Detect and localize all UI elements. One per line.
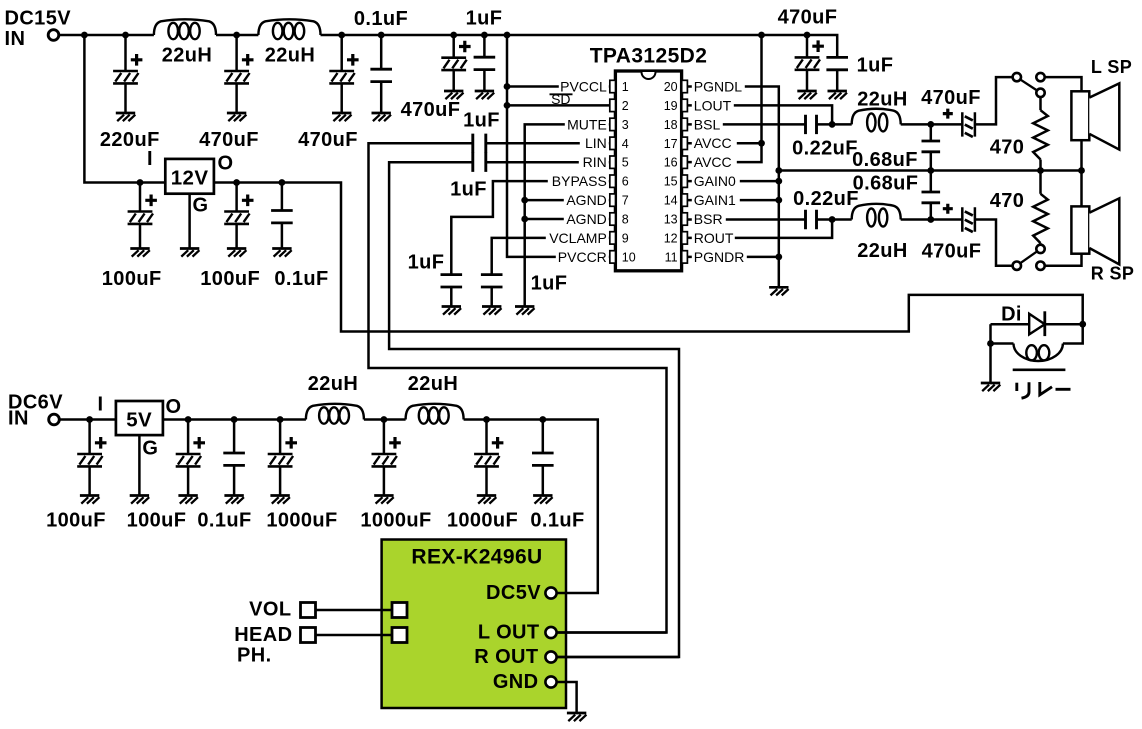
svg-text:1uF: 1uF [463, 110, 500, 132]
svg-text:470: 470 [990, 137, 1025, 159]
svg-text:1000uF: 1000uF [447, 510, 518, 532]
svg-text:470: 470 [990, 190, 1025, 212]
svg-text:BSL: BSL [694, 116, 721, 132]
svg-text:470uF: 470uF [401, 99, 461, 121]
svg-text:5V: 5V [126, 409, 152, 432]
svg-text:10: 10 [622, 250, 636, 264]
svg-text:1uF: 1uF [531, 273, 568, 295]
svg-text:DC15V: DC15V [5, 8, 72, 30]
svg-text:ROUT: ROUT [694, 230, 734, 246]
svg-text:17: 17 [664, 137, 678, 151]
svg-text:IN: IN [5, 28, 26, 50]
svg-text:0.68uF: 0.68uF [852, 149, 918, 171]
svg-text:0.1uF: 0.1uF [354, 8, 408, 30]
svg-text:LOUT: LOUT [694, 97, 732, 113]
svg-text:470uF: 470uF [922, 241, 982, 263]
svg-text:I: I [147, 148, 153, 170]
svg-text:2: 2 [622, 99, 629, 113]
svg-text:I: I [98, 394, 104, 416]
svg-text:22uH: 22uH [408, 373, 459, 395]
svg-text:VOL: VOL [249, 599, 291, 621]
svg-text:AVCC: AVCC [694, 135, 732, 151]
svg-text:GAIN1: GAIN1 [694, 192, 736, 208]
svg-text:0.1uF: 0.1uF [530, 510, 584, 532]
svg-text:O: O [218, 153, 234, 175]
svg-text:R SP: R SP [1091, 264, 1135, 284]
svg-text:11: 11 [665, 250, 678, 264]
svg-text:G: G [193, 195, 209, 217]
svg-text:PGNDR: PGNDR [694, 249, 745, 265]
svg-text:1uF: 1uF [450, 179, 487, 201]
svg-text:100uF: 100uF [102, 268, 162, 290]
svg-text:18: 18 [664, 118, 678, 132]
svg-text:470uF: 470uF [921, 87, 981, 109]
svg-text:O: O [166, 396, 182, 418]
svg-text:100uF: 100uF [46, 510, 106, 532]
svg-text:4: 4 [622, 137, 629, 151]
svg-text:LIN: LIN [585, 135, 607, 151]
svg-text:BYPASS: BYPASS [552, 173, 607, 189]
svg-text:470uF: 470uF [298, 129, 358, 151]
svg-text:0.22uF: 0.22uF [793, 188, 859, 210]
svg-text:0.1uF: 0.1uF [274, 268, 328, 290]
svg-text:3: 3 [622, 118, 629, 132]
svg-text:22uH: 22uH [265, 45, 316, 67]
svg-text:R OUT: R OUT [474, 646, 538, 668]
svg-text:0.68uF: 0.68uF [853, 173, 919, 195]
svg-text:L SP: L SP [1091, 57, 1132, 77]
svg-text:PGNDL: PGNDL [694, 78, 742, 94]
svg-text:BSR: BSR [694, 211, 723, 227]
svg-text:1uF: 1uF [408, 252, 445, 274]
svg-text:22uH: 22uH [308, 373, 359, 395]
svg-text:1: 1 [622, 80, 629, 94]
svg-text:13: 13 [664, 213, 678, 227]
svg-text:Di: Di [1001, 304, 1022, 326]
svg-text:20: 20 [664, 80, 678, 94]
svg-text:12: 12 [664, 231, 678, 245]
svg-text:GND: GND [493, 671, 539, 693]
svg-text:12V: 12V [171, 167, 209, 190]
svg-text:GAIN0: GAIN0 [694, 173, 736, 189]
svg-text:AGND: AGND [566, 211, 606, 227]
svg-text:470uF: 470uF [199, 129, 259, 151]
svg-text:22uH: 22uH [857, 240, 908, 262]
svg-text:7: 7 [622, 194, 629, 208]
svg-text:470uF: 470uF [778, 7, 838, 29]
svg-text:IN: IN [8, 408, 29, 430]
svg-text:AGND: AGND [566, 192, 606, 208]
svg-text:G: G [142, 438, 158, 460]
svg-text:PVCCR: PVCCR [558, 249, 607, 265]
svg-text:100uF: 100uF [127, 510, 187, 532]
svg-text:PH.: PH. [237, 645, 272, 667]
svg-text:9: 9 [622, 231, 629, 245]
svg-text:19: 19 [664, 99, 678, 113]
svg-text:100uF: 100uF [200, 268, 260, 290]
svg-text:6: 6 [622, 175, 629, 189]
svg-text:MUTE: MUTE [567, 116, 607, 132]
svg-text:16: 16 [664, 156, 678, 170]
svg-text:DC5V: DC5V [486, 582, 541, 604]
svg-text:5: 5 [622, 156, 629, 170]
svg-text:1000uF: 1000uF [360, 510, 431, 532]
svg-text:VCLAMP: VCLAMP [549, 230, 607, 246]
svg-text:0.1uF: 0.1uF [197, 510, 251, 532]
svg-text:1000uF: 1000uF [266, 510, 337, 532]
svg-text:22uH: 22uH [857, 89, 908, 111]
svg-text:22uH: 22uH [162, 45, 213, 67]
svg-text:HEAD: HEAD [234, 624, 292, 646]
svg-text:TPA3125D2: TPA3125D2 [590, 45, 708, 68]
svg-text:1uF: 1uF [857, 55, 894, 77]
svg-text:15: 15 [664, 175, 678, 189]
svg-text:14: 14 [664, 194, 678, 208]
svg-text:RIN: RIN [583, 154, 607, 170]
svg-text:L OUT: L OUT [478, 622, 540, 644]
svg-text:8: 8 [622, 213, 629, 227]
svg-text:AVCC: AVCC [694, 154, 732, 170]
svg-text:REX-K2496U: REX-K2496U [411, 546, 542, 569]
svg-text:1uF: 1uF [466, 8, 503, 30]
svg-text:0.22uF: 0.22uF [792, 138, 858, 160]
